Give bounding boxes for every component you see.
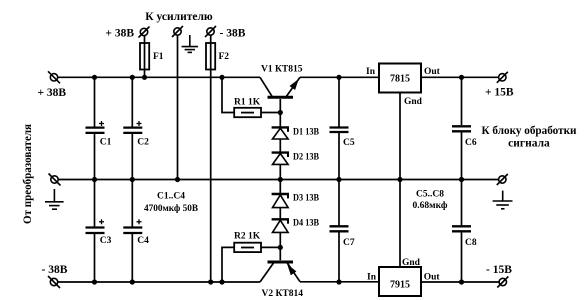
svg-text:D2 13В: D2 13В xyxy=(293,153,320,163)
svg-text:C5: C5 xyxy=(343,138,355,148)
svg-text:V1 КТ815: V1 КТ815 xyxy=(261,65,303,75)
svg-text:От преобразователя: От преобразователя xyxy=(22,124,34,224)
svg-text:C1..C4: C1..C4 xyxy=(157,191,185,201)
svg-text:R1 1K: R1 1K xyxy=(234,98,261,108)
svg-text:C3: C3 xyxy=(100,236,112,246)
svg-text:D3 13В: D3 13В xyxy=(293,194,320,204)
svg-text:C2: C2 xyxy=(137,138,149,148)
svg-text:D4 13В: D4 13В xyxy=(293,219,320,229)
svg-text:R2 1K: R2 1K xyxy=(234,232,261,242)
svg-text:Gnd: Gnd xyxy=(402,258,421,268)
svg-text:F1: F1 xyxy=(153,52,164,62)
svg-text:7815: 7815 xyxy=(390,74,410,85)
svg-text:C7: C7 xyxy=(343,238,355,248)
svg-text:V2 КТ814: V2 КТ814 xyxy=(262,289,304,299)
svg-text:- 38В: - 38В xyxy=(220,28,246,40)
svg-text:C1: C1 xyxy=(100,138,112,148)
svg-text:0.68мкф: 0.68мкф xyxy=(413,200,448,211)
svg-text:D1 13В: D1 13В xyxy=(293,128,320,138)
svg-text:C5..C8: C5..C8 xyxy=(416,190,444,200)
svg-text:F2: F2 xyxy=(219,52,230,62)
svg-text:4700мкф 50В: 4700мкф 50В xyxy=(144,203,199,214)
svg-text:In: In xyxy=(366,67,376,77)
svg-text:К усилителю: К усилителю xyxy=(145,11,213,23)
svg-text:7915: 7915 xyxy=(390,280,410,291)
svg-text:- 38В: - 38В xyxy=(42,264,68,276)
svg-text:Out: Out xyxy=(424,273,441,283)
svg-text:К блоку обработки: К блоку обработки xyxy=(482,125,577,137)
svg-text:C8: C8 xyxy=(465,238,477,248)
svg-text:сигнала: сигнала xyxy=(508,138,550,150)
svg-text:C4: C4 xyxy=(137,236,149,246)
svg-text:Out: Out xyxy=(424,67,441,77)
svg-text:- 15В: - 15В xyxy=(486,264,512,276)
svg-text:Gnd: Gnd xyxy=(404,97,423,107)
svg-text:In: In xyxy=(367,273,377,283)
svg-text:+ 38В: + 38В xyxy=(105,28,134,40)
svg-text:+ 15В: + 15В xyxy=(485,87,514,99)
svg-text:+ 38В: + 38В xyxy=(38,87,67,99)
svg-text:C6: C6 xyxy=(465,138,477,148)
